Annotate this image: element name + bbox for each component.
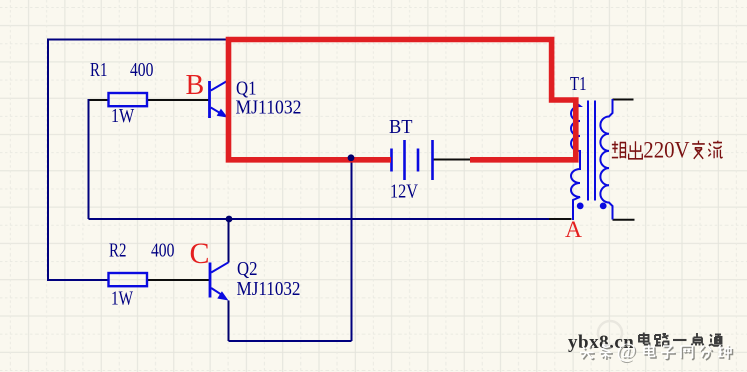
svg-text:@: @ [617,339,636,363]
svg-text:T1: T1 [570,74,587,95]
watermark CJK 钟 [718,345,732,360]
output label CJK 出 [629,141,643,159]
svg-text:BT: BT [389,117,413,138]
watermark CJK 一 [673,339,687,341]
output label CJK 流 [708,141,722,159]
resistor R1 [109,93,148,106]
wire Q2 collector vertical [228,219,230,263]
wire battery right stub [434,159,471,161]
wire Q2 emitter vertical [228,301,230,342]
watermark CJK 点 [692,333,704,346]
transformer T1 core [588,101,595,201]
transformer T1 secondary winding [600,99,612,220]
svg-text:C: C [190,237,210,270]
wire R2 left stub [47,279,108,281]
svg-text:400: 400 [130,60,153,81]
resistor R2 [109,273,148,286]
svg-text:1W: 1W [111,106,135,127]
watermark CJK 网 [681,346,694,359]
svg-text:400: 400 [151,241,174,262]
wire top horizontal (Q1 collector to transformer) [48,39,230,41]
transistor Q1 [210,81,228,118]
svg-text:12V: 12V [390,181,418,202]
transformer T1 primary winding [571,99,580,220]
watermark CJK 分 [700,346,713,360]
wire secondary bottom stub [613,219,635,221]
wire Q1 collector vertical (under red) [228,40,230,81]
transistor Q2 [210,262,229,300]
red highlighted wire path [229,40,576,160]
transformer polarity dot secondary [600,203,607,210]
watermark CJK 条 [600,345,613,360]
svg-text:R1: R1 [90,60,107,81]
svg-text:220V: 220V [643,138,690,163]
svg-text:MJ11032: MJ11032 [236,98,302,119]
svg-text:Q2: Q2 [237,259,258,280]
output label CJK 输 [612,141,626,158]
wire vertical R1-left to bottom rail [88,99,90,219]
watermark smiley circle [598,321,622,345]
transformer polarity dot primary [577,203,584,210]
watermark CJK 头 [580,346,595,360]
junction dot bottom rail [226,216,233,223]
wire left vertical feedback [47,39,49,281]
svg-text:1W: 1W [111,288,133,309]
watermark CJK 通 [709,335,723,346]
wire R1 right stub to Q1 base [147,99,210,101]
watermark CJK 子 [661,346,676,360]
battery BT [392,140,433,180]
wire bottom rail horizontal [89,218,550,220]
watermark line2 头条@电子网分钟 embossed [580,339,732,364]
wire Q2 emitter horizontal [229,340,352,342]
svg-text:B: B [186,70,205,101]
svg-text:A: A [565,217,582,243]
wire Q1 emitter vertical (under red) [228,118,230,160]
svg-text:R2: R2 [109,241,126,262]
svg-text:Q1: Q1 [236,78,257,99]
wire R2 right stub to Q2 base [147,279,210,281]
output label CJK 交 [692,141,705,159]
wire secondary top stub [613,99,634,101]
watermark CJK 电 [639,333,650,345]
wire vertical x351 to battery node [351,161,353,342]
svg-text:MJ11032: MJ11032 [237,279,301,300]
watermark CJK 电 [644,345,656,358]
wire R1 left stub [89,99,109,101]
junction dot battery node [348,154,355,161]
watermark CJK 路 [655,334,669,346]
